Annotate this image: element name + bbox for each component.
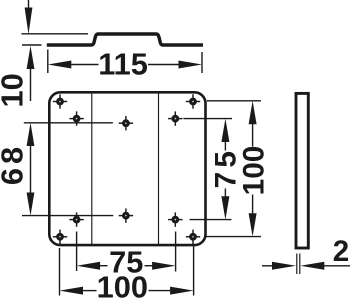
hole corner bottom-right bbox=[186, 230, 200, 244]
dim 100 bottom: right extension line bbox=[193, 246, 195, 296]
dim 75 bottom: left line segment bbox=[99, 265, 108, 267]
svg-text:10: 10 bbox=[0, 73, 29, 107]
dim 10: lower shaft bbox=[30, 67, 32, 101]
svg-text:100: 100 bbox=[97, 270, 148, 299]
dim 10: down arrowhead bbox=[25, 8, 33, 35]
dim 100 bottom: right arrowhead bbox=[170, 287, 194, 295]
dim 100 right: upper shaft bbox=[252, 121, 254, 147]
dim 68: shaft bbox=[30, 143, 32, 196]
bend line left bbox=[91, 94, 93, 244]
extension line: top surface level bbox=[21, 33, 88, 35]
hole corner bottom-left bbox=[53, 230, 67, 244]
dim 75 bottom: left extension line bbox=[76, 232, 78, 272]
dim 2: right shaft bbox=[322, 265, 350, 267]
dim 2: left extension line bbox=[296, 254, 298, 275]
dim 100 bottom: right line segment bbox=[149, 290, 173, 292]
dim 115: line left segment bbox=[69, 64, 99, 66]
hole white inner crosses bbox=[59, 101, 61, 103]
dim 10: up arrowhead bbox=[27, 46, 35, 69]
plate outline (front view) bbox=[49, 92, 205, 245]
bend line right bbox=[158, 94, 160, 244]
dim 100 right: lower shaft bbox=[252, 195, 254, 216]
hole inner bottom-right bbox=[168, 212, 182, 226]
hole inner top-left bbox=[69, 111, 83, 125]
dim 75 bottom: right line segment bbox=[145, 265, 154, 267]
dim 75 bottom: right arrowhead bbox=[152, 262, 176, 270]
dim 100 bottom: left extension line bbox=[59, 248, 61, 296]
dim 75 bottom: right extension line bbox=[175, 232, 177, 272]
dim 2: right-pointing arrowhead bbox=[272, 262, 296, 270]
svg-text:115: 115 bbox=[98, 47, 148, 82]
dim 100 right: bottom extension line bbox=[204, 236, 261, 238]
dim 100 right: up arrowhead bbox=[249, 101, 257, 124]
dim 75 right: lower shaft bbox=[224, 189, 226, 199]
dim 10: upper shaft bbox=[28, 0, 30, 8]
hole middle bottom bbox=[119, 208, 133, 222]
hole inner bottom-left bbox=[69, 212, 83, 226]
hole inner top-right bbox=[168, 111, 182, 125]
dim 100 right: top extension line bbox=[207, 100, 261, 102]
dim 115: left arrowhead bbox=[48, 61, 72, 69]
dim 75 right: down arrowhead bbox=[221, 196, 229, 219]
dim 2: left-pointing arrowhead bbox=[300, 262, 324, 270]
svg-text:2: 2 bbox=[333, 235, 349, 268]
dim 68: bottom extension line bbox=[22, 215, 113, 217]
hole corner top-right bbox=[186, 94, 200, 108]
hole middle top bbox=[119, 116, 133, 130]
dim 115: right extension line bbox=[201, 52, 203, 73]
dim 75 right: bottom extension line bbox=[190, 219, 232, 221]
dim 115: line right segment bbox=[148, 64, 181, 66]
dim 100 bottom: left line segment bbox=[82, 290, 97, 292]
profile cross-section (top view of bent plate) bbox=[47, 34, 203, 45]
dim 68: top extension line bbox=[24, 122, 113, 124]
dim 100 bottom: left arrowhead bbox=[60, 287, 84, 295]
dim 115: left extension line bbox=[47, 50, 49, 74]
hole discs bbox=[56, 98, 64, 106]
svg-text:68: 68 bbox=[0, 143, 30, 185]
extension line: lower surface level bbox=[22, 44, 42, 46]
dim 100 right: down arrowhead bbox=[249, 213, 257, 236]
dim 75 right: upper shaft bbox=[224, 140, 226, 151]
dim 2: right extension line bbox=[299, 254, 301, 275]
dim 68: down arrowhead bbox=[27, 193, 35, 216]
dim 75 right: top extension line bbox=[183, 118, 232, 120]
side view bar (edge view, 2 mm sheet) bbox=[296, 93, 308, 248]
dim 75 right: up arrowhead bbox=[221, 119, 229, 142]
dim 115: right arrowhead bbox=[179, 61, 203, 69]
dim 2: left shaft bbox=[262, 265, 274, 267]
hole corner top-left bbox=[53, 94, 67, 108]
dim 75 bottom: left arrowhead bbox=[77, 262, 101, 270]
svg-text:100: 100 bbox=[237, 146, 270, 196]
holes: crosshair marks bbox=[53, 94, 200, 244]
dim 68: up arrowhead bbox=[27, 123, 35, 146]
